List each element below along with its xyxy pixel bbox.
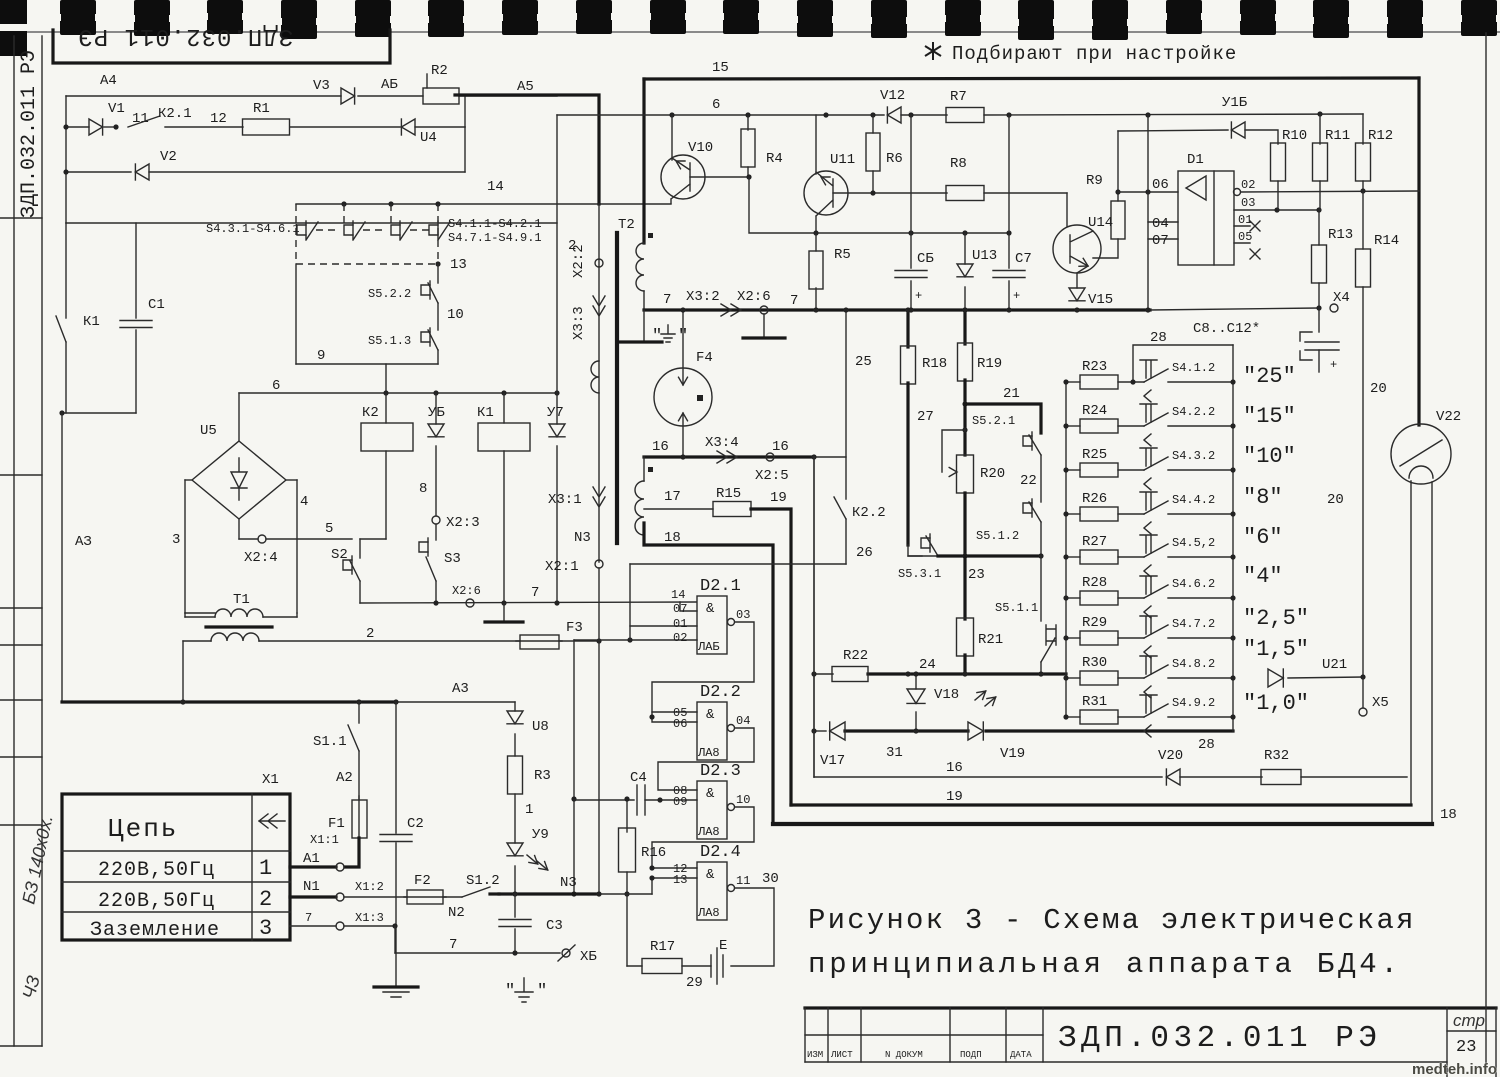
svg-text:R10: R10 [1282, 128, 1307, 144]
gate D2.4 [697, 862, 727, 920]
title block small table [805, 1034, 1043, 1036]
resistor R12 [1362, 114, 1364, 144]
svg-text:К2: К2 [362, 405, 379, 421]
output 03 [1234, 209, 1319, 211]
svg-text:D1: D1 [1187, 152, 1204, 168]
svg-text:09: 09 [673, 795, 687, 809]
svg-text:&: & [706, 707, 715, 723]
svg-text:R14: R14 [1374, 233, 1399, 249]
svg-text:02: 02 [673, 631, 687, 645]
R9 [1117, 131, 1119, 201]
svg-text:S4.2.2: S4.2.2 [1172, 405, 1215, 419]
svg-text:8: 8 [419, 481, 427, 497]
svg-text:R28: R28 [1082, 575, 1107, 591]
svg-text:X2:1: X2:1 [545, 559, 579, 575]
svg-text:R7: R7 [950, 89, 967, 105]
svg-text:220В,50Гц: 220В,50Гц [98, 890, 215, 913]
net 26 vertical [629, 564, 631, 640]
D2.4 input 13 [652, 878, 697, 894]
sidebar frame column [13, 36, 15, 1046]
ground under S3 [503, 603, 505, 620]
svg-text:S4.3.1-S4.6.1: S4.3.1-S4.6.1 [206, 222, 300, 236]
svg-text:ЗДП.032.011 РЭ: ЗДП.032.011 РЭ [18, 50, 41, 218]
connector X3:2 arrows [721, 304, 731, 316]
svg-text:S5.1.3: S5.1.3 [368, 334, 411, 348]
resistor R24 [1066, 425, 1080, 427]
svg-text:R26: R26 [1082, 491, 1107, 507]
svg-text:U8: U8 [532, 719, 549, 735]
svg-text:T2: T2 [618, 217, 635, 233]
svg-text:": " [537, 982, 547, 1001]
svg-text:19: 19 [770, 490, 787, 506]
transistor U14 [1053, 225, 1101, 273]
IC D1 [1178, 171, 1234, 265]
net 16 thin loop [813, 457, 815, 777]
svg-text:6: 6 [712, 97, 720, 113]
svg-text:S4.3.2: S4.3.2 [1172, 449, 1215, 463]
wire 9 [295, 264, 297, 364]
svg-text:"1,5": "1,5" [1243, 637, 1309, 662]
svg-text:R1: R1 [253, 101, 270, 117]
svg-text:ИЗМ: ИЗМ [807, 1050, 823, 1060]
svg-text:S4.4.2: S4.4.2 [1172, 493, 1215, 507]
svg-text:R3: R3 [534, 768, 551, 784]
connector X3:1 arrows [593, 487, 605, 497]
svg-text:F4: F4 [696, 350, 713, 366]
wire 6 [239, 392, 557, 394]
svg-text:ЛА8: ЛА8 [697, 746, 720, 760]
svg-text:01: 01 [1238, 213, 1252, 227]
svg-text:T1: T1 [233, 592, 250, 608]
frame right edge [1417, 78, 1420, 425]
switch S4.7.2 [1118, 637, 1144, 639]
switch S4.8.2 [1118, 677, 1144, 679]
svg-text:"15": "15" [1243, 404, 1296, 429]
net 19 bottom [791, 803, 1411, 806]
block A4 wires [66, 95, 341, 97]
svg-text:20: 20 [1370, 381, 1387, 397]
svg-text:ЛАБ: ЛАБ [697, 640, 720, 654]
svg-text:7: 7 [305, 911, 312, 925]
svg-text:N3: N3 [560, 875, 577, 891]
svg-text:A5: A5 [517, 79, 534, 95]
x815 column [813, 457, 815, 777]
connector X2:3 [432, 516, 440, 524]
svg-text:R24: R24 [1082, 403, 1107, 419]
svg-text:V22: V22 [1436, 409, 1461, 425]
switch S4.4.2 [1118, 513, 1144, 515]
svg-text:01: 01 [673, 617, 687, 631]
svg-text:X4: X4 [1333, 290, 1350, 306]
diode V20 [1166, 769, 1180, 785]
svg-text:S3: S3 [444, 551, 461, 567]
contact S3 [427, 538, 429, 556]
resistor R1 [243, 119, 290, 135]
svg-text:6: 6 [272, 378, 280, 394]
svg-text:S4.1.2: S4.1.2 [1172, 361, 1215, 375]
svg-text:S4.5,2: S4.5,2 [1172, 536, 1215, 550]
svg-text:АЗ: АЗ [75, 534, 92, 550]
ladder bus 24 left [1065, 382, 1067, 717]
switch S4.9.2 [1118, 716, 1144, 718]
svg-text:2: 2 [259, 887, 272, 912]
contact S5.1.3 [429, 328, 431, 346]
svg-text:S5.1.1: S5.1.1 [995, 601, 1038, 615]
terminal X4 [1330, 304, 1338, 312]
svg-text:4: 4 [300, 494, 308, 510]
X1 connector table [62, 794, 290, 940]
contact S2 [359, 539, 361, 558]
D2.1 input 07 [680, 602, 697, 611]
switch S4.3.2 [1118, 469, 1144, 471]
svg-text:"25": "25" [1243, 364, 1296, 389]
svg-text:11: 11 [736, 874, 750, 888]
svg-text:Подбирают при настройке: Подбирают при настройке [952, 43, 1237, 65]
capacitor C6 [910, 115, 912, 268]
svg-text:+: + [1330, 358, 1337, 372]
svg-text:X2:5: X2:5 [755, 468, 789, 484]
svg-text:A2: A2 [336, 770, 353, 786]
svg-text:17: 17 [664, 489, 681, 505]
gate D2.3 [697, 781, 727, 839]
svg-text:S4.9.2: S4.9.2 [1172, 696, 1215, 710]
svg-text:X1:1: X1:1 [310, 833, 339, 847]
D2.2 input 06 [652, 712, 697, 722]
svg-text:03: 03 [736, 608, 750, 622]
chain 10 to D2.4 [652, 807, 754, 868]
svg-text:28: 28 [1198, 737, 1215, 753]
connector X2:4 [238, 519, 240, 539]
wire to V11 emitter row [749, 177, 816, 233]
diode V18 [915, 674, 917, 689]
ground under X2:6 [763, 314, 765, 336]
svg-text:02: 02 [1241, 178, 1255, 192]
connector X2:1 [595, 560, 603, 568]
svg-text:С8..С12*: С8..С12* [1193, 321, 1260, 337]
svg-text:S5.2.1: S5.2.1 [972, 414, 1015, 428]
wire 3 [185, 479, 192, 481]
resistor R16 [626, 799, 628, 832]
wire 14 [296, 203, 671, 205]
svg-text:10: 10 [736, 793, 750, 807]
resistor R4 [747, 115, 749, 130]
V10 base wire [690, 176, 749, 178]
dashed box S4.3.1-S4.6.1 [296, 204, 438, 264]
svg-text:03: 03 [1241, 196, 1255, 210]
svg-text:V18: V18 [934, 687, 959, 703]
row2 wire N1 [290, 895, 336, 898]
svg-text:F2: F2 [414, 873, 431, 889]
svg-text:D2.4: D2.4 [700, 843, 741, 862]
svg-text:+: + [915, 289, 922, 303]
svg-text:220В,50Гц: 220В,50Гц [98, 859, 215, 882]
thick A3 wire [62, 700, 396, 703]
svg-text:V20: V20 [1158, 748, 1183, 764]
connector X3:3 arrows [593, 296, 605, 306]
diode V15 [1076, 273, 1078, 288]
resistor R23 [1066, 381, 1080, 383]
contact S5.2.2 [437, 264, 439, 283]
svg-text:стр: стр [1453, 1011, 1485, 1030]
svg-text:ЛА8: ЛА8 [697, 906, 720, 920]
svg-text:Заземление: Заземление [90, 919, 220, 942]
svg-text:R22: R22 [843, 648, 868, 664]
svg-text:X2:6: X2:6 [737, 289, 771, 305]
svg-text:"1,0": "1,0" [1243, 691, 1309, 716]
resistor R14 [1362, 191, 1364, 249]
svg-text:U11: U11 [830, 152, 855, 168]
T2 secondary winding [643, 457, 645, 481]
svg-text:2: 2 [366, 626, 374, 642]
svg-text:ЛИСТ: ЛИСТ [830, 1050, 853, 1060]
wire 7 lower [360, 602, 696, 603]
svg-text:V1: V1 [108, 101, 125, 117]
svg-text:R9: R9 [1086, 173, 1103, 189]
svg-text:К2.2: К2.2 [852, 505, 886, 521]
svg-text:5: 5 [325, 521, 333, 537]
net 20 vertical [1362, 287, 1364, 677]
svg-text:C4: C4 [630, 770, 647, 786]
resistor R11 [1319, 114, 1321, 144]
svg-text:У7: У7 [547, 405, 564, 421]
svg-text:14: 14 [487, 179, 504, 195]
svg-text:R23: R23 [1082, 359, 1107, 375]
svg-text:V2: V2 [160, 149, 177, 165]
svg-text:12: 12 [210, 111, 227, 127]
svg-text:ДАТА: ДАТА [1010, 1050, 1032, 1060]
D2.1 inputs 01 02 [630, 625, 697, 627]
svg-text:"10": "10" [1243, 444, 1296, 469]
title block frame [805, 1006, 1496, 1009]
wire 31 [814, 730, 826, 732]
svg-text:31: 31 [886, 745, 903, 761]
resistor R19 [963, 310, 966, 344]
wire 7 bottom [395, 952, 560, 954]
svg-text:06: 06 [1152, 177, 1169, 193]
diode V16 [1231, 122, 1245, 138]
svg-text:E: E [719, 938, 727, 954]
svg-text:04: 04 [736, 714, 750, 728]
box 21 S5.2.1 [962, 401, 967, 406]
svg-text:V15: V15 [1088, 292, 1113, 308]
resistor R15 [713, 502, 751, 517]
svg-text:S1.2: S1.2 [466, 873, 500, 889]
svg-text:АБ: АБ [381, 77, 398, 93]
svg-text:F3: F3 [566, 620, 583, 636]
svg-text:R27: R27 [1082, 534, 1107, 550]
asterisk star [925, 42, 941, 60]
relay K2 stub to wire 5 [360, 538, 386, 540]
svg-text:27: 27 [917, 409, 934, 425]
svg-text:10: 10 [447, 307, 464, 323]
wire K1/C1 bottom [62, 412, 136, 414]
capacitor C3 [514, 894, 516, 917]
svg-text:1: 1 [259, 856, 272, 881]
contact K1 [65, 223, 67, 318]
diode V6 [435, 393, 437, 424]
svg-text:22: 22 [1020, 473, 1037, 489]
stubs 04 07 [1148, 221, 1178, 223]
net 18 bottom [773, 822, 1432, 826]
svg-text:V17: V17 [820, 753, 845, 769]
svg-text:7: 7 [790, 293, 798, 309]
svg-text:C3: C3 [546, 918, 563, 934]
svg-text:F1: F1 [328, 816, 345, 832]
fuse F1 [358, 796, 360, 842]
svg-text:R17: R17 [650, 939, 675, 955]
svg-text:R18: R18 [922, 356, 947, 372]
connector X2:5 [766, 453, 774, 461]
svg-text:У9: У9 [532, 827, 549, 843]
transistor V10 [671, 115, 673, 160]
svg-text:N2: N2 [448, 905, 465, 921]
resistor R13 [1318, 210, 1320, 245]
wire base row y193 [833, 192, 947, 194]
diode V17 [830, 722, 845, 740]
svg-text:ЧЗ: ЧЗ [19, 973, 44, 1001]
svg-text:R32: R32 [1264, 748, 1289, 764]
svg-text:S5.1.2: S5.1.2 [976, 529, 1019, 543]
contact S1.2 [443, 896, 462, 898]
wire 26 [630, 563, 846, 565]
svg-text:&: & [706, 867, 715, 883]
svg-text:К1: К1 [477, 405, 494, 421]
svg-text:C7: C7 [1015, 251, 1032, 267]
svg-text:19: 19 [946, 789, 963, 805]
svg-text:&: & [706, 601, 715, 617]
svg-text:К1: К1 [83, 314, 100, 330]
resistor R21 [963, 556, 966, 619]
connector X2:6b [760, 306, 768, 314]
svg-text:У1Б: У1Б [1222, 95, 1248, 111]
svg-text:R5: R5 [834, 247, 851, 263]
ground under C2 [374, 985, 418, 988]
wire from R9 top to V16 [1118, 130, 1228, 131]
x574 vertical [573, 640, 575, 894]
wire 16 [644, 455, 814, 458]
svg-text:R25: R25 [1082, 447, 1107, 463]
svg-text:ПОДП: ПОДП [960, 1050, 982, 1060]
svg-text:V10: V10 [688, 140, 713, 156]
svg-text:R11: R11 [1325, 128, 1350, 144]
svg-text:D2.2: D2.2 [700, 683, 741, 702]
connector X3:4 arrows [717, 451, 727, 463]
svg-text:26: 26 [856, 545, 873, 561]
svg-text:К2.1: К2.1 [158, 106, 192, 122]
diode V12 [887, 107, 901, 123]
svg-text:R2: R2 [431, 63, 448, 79]
wire 4 [286, 479, 297, 481]
selector contacts [305, 221, 307, 239]
svg-text:X2:3: X2:3 [446, 515, 480, 531]
ladder top wire 28 [1133, 345, 1233, 382]
chain 03 to D2.2 [652, 622, 754, 712]
net 19 down [751, 509, 791, 805]
lamp U22 [1391, 424, 1451, 484]
net 18 down [644, 523, 773, 824]
svg-text:X5: X5 [1372, 695, 1389, 711]
diode V2 [135, 164, 149, 180]
svg-text:R12: R12 [1368, 128, 1393, 144]
gate D2.2 [697, 702, 727, 760]
potentiometer R20 [963, 404, 966, 455]
switch S4.1.2 [1118, 381, 1144, 383]
svg-text:Рисунок 3 - Схема электрическа: Рисунок 3 - Схема электрическая [808, 904, 1416, 937]
chain 04 to D2.3 [658, 728, 754, 790]
contact S5.3.1 [929, 534, 931, 552]
fuse F2 [404, 896, 446, 898]
svg-text:3: 3 [172, 532, 180, 548]
svg-text:1: 1 [525, 802, 533, 818]
tap 17 to R15 [644, 508, 713, 510]
svg-text:07: 07 [673, 602, 687, 616]
svg-text:23: 23 [1456, 1038, 1476, 1057]
svg-text:07: 07 [1152, 233, 1169, 249]
diode U13 [964, 233, 966, 264]
svg-text:D2.3: D2.3 [700, 762, 741, 781]
svg-text:U4: U4 [420, 130, 437, 146]
contact S5.1.2 [1031, 499, 1033, 517]
svg-text:R30: R30 [1082, 655, 1107, 671]
svg-text:R20: R20 [980, 466, 1005, 482]
scan page right edge [1485, 33, 1487, 1062]
svg-text:7: 7 [531, 585, 539, 601]
spiral binding holes [0, 31, 1500, 33]
row1 wire to A1 [290, 865, 336, 868]
wire 6 top rail [556, 115, 558, 393]
svg-text:U5: U5 [200, 423, 217, 439]
svg-text:U13: U13 [972, 248, 997, 264]
svg-text:R6: R6 [886, 151, 903, 167]
resistor R6 [872, 115, 874, 133]
wire 23 [908, 555, 938, 557]
resistor R26 [1066, 513, 1080, 515]
svg-text:принципиальная аппарата БД4.: принципиальная аппарата БД4. [808, 948, 1402, 981]
resistor R10 [1271, 143, 1286, 181]
svg-text:X2:2: X2:2 [571, 244, 587, 278]
diode V7 [556, 393, 558, 424]
svg-text:"6": "6" [1243, 525, 1283, 550]
capacitor C2 [395, 702, 397, 833]
svg-text:21: 21 [1003, 386, 1020, 402]
svg-text:V3: V3 [313, 78, 330, 94]
resistor R29 [1066, 637, 1080, 639]
svg-text:20: 20 [1327, 492, 1344, 508]
svg-text:X2:4: X2:4 [244, 550, 278, 566]
wire 24 [814, 673, 833, 675]
switch K2.1 [128, 116, 160, 127]
svg-text:S4.6.2: S4.6.2 [1172, 577, 1215, 591]
svg-text:ЗДП.032.011 РЭ: ЗДП.032.011 РЭ [77, 22, 293, 49]
resistor R22 [832, 667, 868, 682]
contact S1.1 [358, 702, 360, 723]
resistor R30 [1066, 677, 1080, 679]
row3 wire 7 [290, 925, 336, 927]
svg-text:R8: R8 [950, 156, 967, 172]
node 13 [435, 261, 440, 266]
svg-text:A3: A3 [452, 681, 469, 697]
svg-text:13: 13 [450, 257, 467, 273]
svg-text:15: 15 [712, 60, 729, 76]
svg-text:R15: R15 [716, 486, 741, 502]
svg-text:C2: C2 [407, 816, 424, 832]
contact S5.2.1 [1031, 432, 1033, 450]
gate D2.1 [697, 596, 727, 654]
svg-text:medteh.info: medteh.info [1412, 1061, 1497, 1077]
resistor R7 [946, 108, 984, 123]
svg-text:X1: X1 [262, 772, 279, 788]
svg-text:N1: N1 [303, 879, 320, 895]
